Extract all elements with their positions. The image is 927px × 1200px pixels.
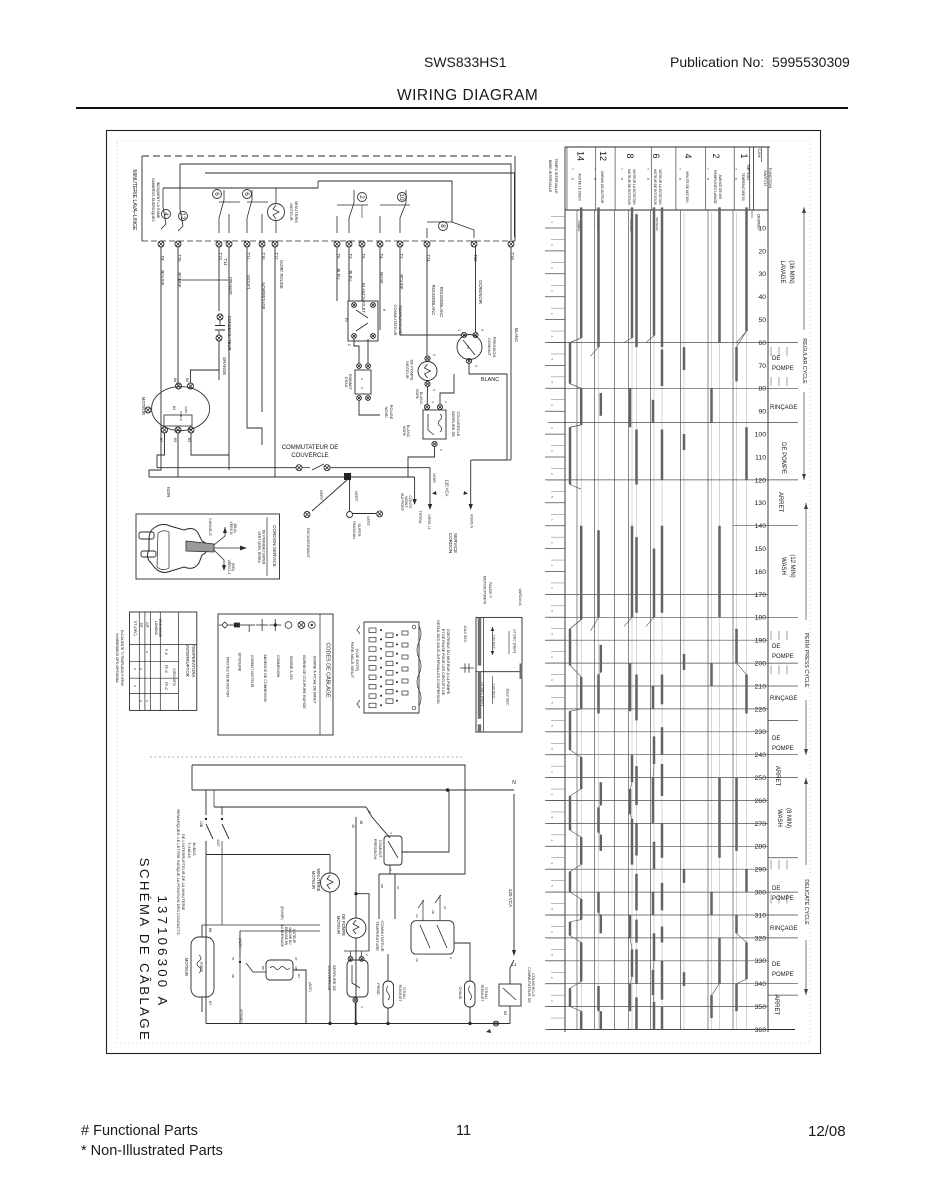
- timer internal wiring: [163, 188, 406, 209]
- svg-text:9T: 9T: [294, 957, 298, 961]
- timer cam switch 12: [178, 209, 188, 231]
- svg-text:1C: 1C: [415, 958, 419, 963]
- svg-text:(BLA): (BLA): [233, 523, 237, 532]
- svg-text:(VUE EXTR): (VUE EXTR): [355, 649, 360, 672]
- timer cam switch 10: [380, 193, 410, 234]
- cycle bracket PERM PRESS CYCLE: [803, 503, 809, 755]
- pressure switch bottom COMMUT PRESSION: [373, 832, 409, 871]
- svg-text:(NO): (NO): [231, 563, 235, 571]
- svg-text:x: x: [145, 651, 149, 653]
- svg-text:COMMUT: COMMUT: [487, 338, 492, 357]
- svg-text:MINUTE DE MOTION: MINUTE DE MOTION: [685, 171, 689, 203]
- svg-text:4: 4: [683, 153, 693, 158]
- svg-text:EPISSURE: EPISSURE: [238, 653, 242, 672]
- svg-text:290: 290: [755, 867, 767, 874]
- temperature switch COMMUTATEUR TEMPERATURE: [344, 301, 403, 347]
- svg-text:PROTECTEUR MOTOR: PROTECTEUR MOTOR: [226, 657, 230, 697]
- svg-text:CONTROLE DU MOTEUR À LA POMPE.: CONTROLE DU MOTEUR À LA POMPE.: [446, 629, 450, 695]
- svg-text:CAM: CAM: [757, 149, 762, 158]
- svg-text:CORDON SERVICE: CORDON SERVICE: [272, 525, 277, 567]
- svg-text:3: 3: [444, 401, 448, 403]
- svg-text:350: 350: [755, 1004, 767, 1011]
- svg-text:D=CALIENTE T=TEMPLADO F=FR: D=CALIENTE T=TEMPLADO F=FRIO: [120, 630, 124, 687]
- legend symbol protecteur motor: [219, 622, 231, 697]
- ground terminal on support: [353, 511, 383, 527]
- timer cam switch 6b: [243, 190, 269, 234]
- svg-text:8B: 8B: [231, 974, 235, 978]
- phase label WASH 12 MIN: [780, 554, 795, 577]
- svg-text:NOIR/: NOIR/: [279, 260, 284, 272]
- wire T24 to pump: [426, 247, 428, 356]
- svg-text:VERS N: VERS N: [229, 521, 233, 535]
- svg-text:SERVICE: SERVICE: [453, 533, 458, 553]
- svg-text:260: 260: [755, 798, 767, 805]
- svg-text:VERT: VERT: [319, 490, 324, 501]
- svg-text:C: C: [360, 387, 364, 390]
- legend box CODES DE CABLAGE: [218, 614, 333, 735]
- svg-text:T: T: [706, 168, 710, 170]
- svg-text:N: N: [512, 780, 516, 786]
- svg-text:POMPE: POMPE: [772, 746, 794, 752]
- svg-text:CONNEXION: CONNEXION: [276, 655, 280, 678]
- chart frame: [548, 147, 795, 1032]
- svg-text:H: H: [449, 957, 453, 959]
- svg-text:F1: F1: [344, 318, 348, 322]
- phase label DE POMPE 1: [772, 356, 794, 372]
- svg-text:RINÇAGE: RINÇAGE: [770, 696, 797, 702]
- timer terminal strip: [158, 241, 514, 247]
- svg-text:0T: 0T: [396, 886, 400, 890]
- wire T16 down: [247, 247, 262, 445]
- svg-text:D’EAU: D’EAU: [402, 987, 406, 999]
- svg-text:PARE MALE MINUT: PARE MALE MINUT: [350, 642, 355, 679]
- svg-text:MACHE DU: MACHE DU: [288, 927, 292, 945]
- svg-text:90: 90: [758, 409, 766, 416]
- svg-text:DE PANNEAU SUPER: DE PANNEAU SUPER: [262, 530, 266, 565]
- svg-text:MOTEUR LA ROTATION: MOTEUR LA ROTATION: [632, 169, 636, 205]
- svg-text:DE L’INTERRUPTEUR DE LA MINUTE: DE L’INTERRUPTEUR DE LA MINUTERIE: [181, 834, 186, 911]
- svg-text:250: 250: [755, 775, 767, 782]
- svg-text:T: T: [646, 168, 650, 170]
- svg-text:280: 280: [755, 844, 767, 851]
- phase label RINCAGE 3: [770, 926, 797, 932]
- svg-text:#12T: #12T: [216, 839, 220, 846]
- svg-text:6: 6: [243, 192, 250, 196]
- legend symbol borne a fiche: [308, 622, 316, 705]
- svg-text:3: 3: [550, 839, 554, 841]
- svg-text:VERT: VERT: [354, 491, 359, 502]
- svg-text:2: 2: [358, 195, 365, 199]
- chassis label ENCAISSEMANT: [306, 528, 310, 559]
- pressure switch label BLANC: [481, 377, 499, 383]
- svg-text:CHAUD: CHAUD: [458, 987, 462, 1000]
- cam 8 track bars: [630, 207, 637, 1029]
- svg-text:FF: FF: [415, 914, 419, 918]
- svg-text:DELICATE CYCLE: DELICATE CYCLE: [803, 879, 809, 925]
- svg-text:70: 70: [758, 363, 766, 370]
- temperature table notes: [115, 630, 124, 687]
- wire pressure feeds: [359, 790, 449, 874]
- svg-text:COUVERCLE: COUVERCLE: [291, 453, 328, 459]
- svg-text:330: 330: [755, 958, 767, 965]
- svg-text:H: H: [382, 309, 386, 312]
- svg-text:B: B: [571, 178, 575, 180]
- wire T13 to capacitor: [218, 247, 220, 311]
- wire pump to lock: [426, 387, 428, 405]
- svg-text:M4: M4: [172, 406, 176, 411]
- wire T19 down: [507, 247, 519, 460]
- svg-text:B: B: [593, 178, 597, 180]
- svg-text:M8: M8: [208, 928, 212, 933]
- svg-text:T=HAUS: T=HAUS: [187, 842, 192, 858]
- svg-text:MOTEUR: MOTEUR: [336, 916, 341, 934]
- pump motor MOTEUR DE POMPE: [405, 354, 437, 404]
- bus wire left drop: [179, 164, 181, 190]
- svg-text:GRIT: GRIT: [184, 406, 188, 413]
- svg-text:CONTE: CONTE: [408, 495, 412, 509]
- svg-text:6: 6: [651, 153, 661, 158]
- wire T4 down: [379, 247, 381, 330]
- svg-text:5: 5: [550, 633, 554, 635]
- wire 120 VCA: [508, 794, 517, 967]
- svg-text:8T: 8T: [231, 957, 235, 961]
- svg-text:FUNCTION: FUNCTION: [768, 168, 773, 189]
- svg-text:5: 5: [550, 496, 554, 498]
- svg-text:T: T: [734, 168, 738, 170]
- svg-text:INTERRUPTOR: INTERRUPTOR: [185, 645, 190, 677]
- temperature table INTERRUPTEUR TEMPERATURA: [130, 612, 197, 710]
- pressure switch COMMUT PRESSION: [457, 329, 497, 367]
- svg-text:(8 MIN): (8 MIN): [785, 808, 791, 828]
- svg-text:10: 10: [398, 193, 405, 201]
- svg-text:MINUTERIE LAVA–LINGE: MINUTERIE LAVA–LINGE: [131, 170, 137, 231]
- svg-text:6: 6: [550, 542, 554, 544]
- wire T5 down: [361, 247, 363, 301]
- svg-text:2: 2: [550, 427, 554, 429]
- svg-text:POMPE: POMPE: [772, 896, 794, 902]
- ground wire to chassis: [304, 480, 347, 518]
- wire lid switch line: [157, 467, 430, 469]
- svg-text:3: 3: [550, 290, 554, 292]
- svg-text:M5: M5: [261, 966, 265, 970]
- timer cam switch 4: [161, 207, 171, 229]
- phase label DE POMPE 4: [772, 736, 794, 752]
- svg-text:SCHÉMA DE CÂBLAGE: SCHÉMA DE CÂBLAGE: [137, 858, 152, 1042]
- chart time scale numbers: [755, 225, 767, 1034]
- svg-text:DE: DE: [772, 886, 780, 892]
- svg-text:MOTEUR: MOTEUR: [655, 218, 659, 232]
- svg-text:DETAIL DES SOUS–INTERVALLES D’: DETAIL DES SOUS–INTERVALLES D’ASPERSION: [436, 620, 440, 704]
- hot valve ROBINET CHAUD: [454, 943, 488, 1024]
- svg-text:PANNEAU: PANNEAU: [352, 521, 356, 539]
- svg-text:140: 140: [755, 523, 767, 530]
- svg-text:50: 50: [758, 317, 766, 324]
- svg-text:DE: DE: [772, 356, 780, 362]
- svg-text:T: T: [571, 168, 575, 170]
- svg-text:NOIR: NOIR: [166, 487, 171, 497]
- svg-text:RINÇAGE: RINÇAGE: [770, 926, 797, 932]
- svg-text:DE POMPE: DE POMPE: [341, 914, 346, 936]
- svg-text:8: 8: [550, 954, 554, 956]
- svg-text:COMMUTATEUR DE: COMMUTATEUR DE: [282, 445, 338, 451]
- cam 14 track bars: [570, 207, 581, 1029]
- timer note NUMEROS ENERGIQUES: [151, 178, 160, 222]
- svg-text:VERT: VERT: [366, 516, 370, 527]
- svg-text:10±4 SEC: 10±4 SEC: [463, 625, 467, 643]
- svg-text:DE: DE: [772, 644, 780, 650]
- svg-text:PERM PRESS CYCLE: PERM PRESS CYCLE: [803, 633, 809, 688]
- ground support labels: [400, 473, 474, 530]
- svg-text:110: 110: [755, 454, 766, 461]
- svg-text:T/T (OPC): T/T (OPC): [133, 620, 137, 636]
- cam 6 track bars: [653, 207, 662, 1029]
- svg-text:5: 5: [550, 702, 554, 704]
- chart header column separators: [567, 147, 734, 210]
- chart vertical rails: [577, 210, 752, 1030]
- svg-text:BLANC: BLANC: [514, 328, 519, 342]
- legend symbol borne coupure rapide: [298, 622, 306, 710]
- svg-text:x: x: [133, 685, 137, 687]
- svg-text:LA BORNIAGE: LA BORNIAGE: [280, 925, 284, 946]
- wire valve NOIR/ROUGE: [359, 401, 394, 420]
- svg-text:300: 300: [755, 890, 767, 897]
- svg-text:20: 20: [758, 248, 766, 255]
- svg-text:TEMPS INTERVALLE: TEMPS INTERVALLE: [554, 158, 558, 194]
- svg-text:12: 12: [179, 212, 186, 220]
- svg-text:120 VCA: 120 VCA: [508, 889, 513, 908]
- svg-text:M5: M5: [185, 378, 189, 383]
- svg-text:NOIR: NOIR: [432, 473, 436, 483]
- svg-text:C/F: C/F: [145, 622, 149, 627]
- diagram outer border: [107, 131, 821, 1054]
- svg-text:NBRE INTERVALLE: NBRE INTERVALLE: [548, 160, 552, 193]
- svg-text:ENCAISSEMANT: ENCAISSEMANT: [306, 528, 310, 559]
- svg-text:2B: 2B: [431, 910, 435, 914]
- timer motor bottom MOTEUR MINUTERIE: [206, 854, 340, 1023]
- svg-text:150: 150: [755, 546, 767, 553]
- phase label RINCAGE 2: [770, 696, 797, 702]
- phase label DE POMPE 2: [780, 442, 786, 474]
- svg-text:NUMEROS ENERGIQUES: NUMEROS ENERGIQUES: [151, 178, 155, 222]
- svg-text:ROBINET: ROBINET: [480, 985, 484, 1003]
- svg-text:FF–H: FF–H: [164, 665, 168, 674]
- svg-text:3: 3: [550, 1000, 554, 1002]
- svg-text:PRESSION: PRESSION: [492, 337, 497, 358]
- bottom bus wire N: [192, 780, 516, 792]
- svg-text:B: B: [678, 178, 682, 180]
- svg-text:CODES DE CÂBLAGE: CODES DE CÂBLAGE: [325, 642, 332, 698]
- svg-text:6: 6: [550, 450, 554, 452]
- lid lock SERRURE DE COUVERCLE: [402, 401, 461, 451]
- svg-text:2: 2: [365, 954, 369, 956]
- chart cam numbers: [571, 151, 750, 206]
- svg-text:ABSENCE DE CONNEXION: ABSENCE DE CONNEXION: [263, 654, 267, 701]
- svg-text:TEMPERATURA: TEMPERATURA: [191, 645, 196, 678]
- svg-text:1: 1: [739, 153, 749, 158]
- cam 4 track bars: [683, 347, 686, 986]
- phase label DE POMPE 3: [772, 644, 794, 660]
- svg-text:BORNE DE COUPURE RAPIDE: BORNE DE COUPURE RAPIDE: [302, 655, 306, 709]
- terminal labels: [160, 252, 515, 317]
- legend symbol connut moteur: [243, 625, 255, 688]
- svg-text:F–H: F–H: [164, 649, 168, 656]
- cam 1 track bars: [737, 207, 747, 1011]
- start relay LA BORNIAGE: [231, 906, 320, 1023]
- timer contact 12T: [206, 807, 229, 1024]
- bus wire top 4: [318, 181, 452, 222]
- svg-text:5: 5: [439, 449, 443, 451]
- svg-text:8: 8: [625, 153, 635, 158]
- chart track top labels: [577, 218, 659, 234]
- svg-text:4: 4: [162, 212, 169, 216]
- svg-text:6: 6: [550, 244, 554, 246]
- svg-text:M6: M6: [173, 378, 177, 383]
- svg-text:PRESSION: PRESSION: [373, 839, 378, 860]
- svg-text:NOIR/: NOIR/: [415, 389, 419, 400]
- timer contact 13B: [199, 790, 213, 839]
- svg-text:COMMUTATEUR: COMMUTATEUR: [393, 305, 398, 336]
- svg-text:B: B: [734, 178, 738, 180]
- svg-text:4: 4: [431, 401, 435, 403]
- svg-text:4T: 4T: [367, 810, 371, 814]
- svg-text:LAVAGE: LAVAGE: [779, 260, 785, 283]
- svg-text:WASH: WASH: [780, 557, 786, 575]
- svg-text:SUPER: SUPER: [357, 523, 361, 536]
- inner dotted margin: [117, 141, 810, 1043]
- svg-text:B: B: [620, 178, 624, 180]
- svg-text:180: 180: [755, 615, 767, 622]
- svg-text:5: 5: [550, 359, 554, 361]
- pump motor bottom MOTEUR DE POMPE: [336, 817, 366, 1024]
- svg-text:270: 270: [755, 821, 767, 828]
- svg-text:CIRCUITO: CIRCUITO: [172, 668, 176, 686]
- svg-text:5: 5: [550, 885, 554, 887]
- legend symbol borne a vis: [285, 622, 293, 681]
- svg-text:M1: M1: [187, 438, 191, 443]
- svg-text:M3: M3: [173, 438, 177, 443]
- svg-text:M3: M3: [503, 1011, 507, 1016]
- pause detail MOTOR/POMPE PAUSE: [460, 576, 522, 732]
- svg-text:120 VCA: 120 VCA: [445, 480, 450, 497]
- svg-text:340: 340: [755, 981, 767, 988]
- bus wire second: [214, 790, 366, 807]
- svg-text:M7: M7: [208, 1001, 212, 1006]
- phase label ARRET 3: [773, 995, 779, 1016]
- svg-text:T/F: T/F: [139, 622, 143, 627]
- svg-text:ET DE PAUSE POUR LES CIRCUITS: ET DE PAUSE POUR LES CIRCUITS DE: [441, 629, 445, 696]
- wire T3 down: [348, 247, 350, 301]
- page title WIRING DIAGRAM: [397, 87, 538, 105]
- svg-text:M7: M7: [159, 438, 163, 443]
- svg-text:MOTEUR: MOTEUR: [405, 361, 410, 378]
- legend symbol connexion: [269, 619, 281, 677]
- svg-text:(ESSOR): (ESSOR): [239, 1009, 243, 1022]
- chart header CAM SWITCH FUNCTION: [746, 147, 773, 230]
- phase label DE POMPE 5: [772, 886, 794, 902]
- temperature switch bottom COMMUTATEUR TEMPERATURE: [375, 895, 454, 963]
- svg-text:NIV: NIV: [466, 345, 470, 350]
- svg-text:3: 3: [389, 832, 393, 834]
- svg-text:13B: 13B: [199, 821, 203, 828]
- svg-text:14 SEC (REF): 14 SEC (REF): [513, 629, 517, 654]
- svg-text:SWITCH: SWITCH: [763, 170, 768, 186]
- svg-text:DE POMPE: DE POMPE: [780, 442, 786, 474]
- svg-text:(16 MIN): (16 MIN): [788, 260, 794, 283]
- wire temp switch to valve: [354, 339, 368, 363]
- svg-text:INDIQUENT LA GAME: INDIQUENT LA GAME: [156, 182, 160, 219]
- svg-text:160: 160: [755, 569, 767, 576]
- svg-text:120: 120: [755, 477, 767, 484]
- legend symbol epissure: [230, 623, 244, 672]
- capacitor CONDENSATEUR: [215, 314, 232, 380]
- svg-text:360: 360: [755, 1027, 767, 1034]
- svg-text:(12 MIN): (12 MIN): [789, 554, 795, 577]
- svg-text:ORANGE: ORANGE: [222, 357, 227, 375]
- wire pressure loop: [400, 335, 507, 460]
- svg-text:6B: 6B: [294, 966, 298, 970]
- svg-text:3: 3: [360, 1006, 364, 1008]
- svg-text:DE: DE: [772, 736, 780, 742]
- svg-text:170: 170: [755, 592, 767, 599]
- svg-text:30: 30: [758, 271, 766, 278]
- svg-text:6: 6: [213, 192, 220, 196]
- svg-text:BORNE À VIS: BORNE À VIS: [289, 656, 293, 680]
- svg-text:SUPPORT: SUPPORT: [400, 493, 404, 512]
- phase label RINCAGE 1: [770, 405, 797, 411]
- bottom left inner wires: [202, 841, 320, 1024]
- svg-text:B=BAS: B=BAS: [192, 842, 197, 855]
- title rule: [76, 107, 848, 109]
- svg-text:120 SEC: 120 SEC: [492, 683, 496, 698]
- wire T8 to motor: [149, 247, 161, 477]
- phase label WASH 8 MIN: [776, 808, 791, 828]
- svg-text:MINUTERIE: MINUTERIE: [294, 201, 299, 223]
- svg-text:DE MISE EN: DE MISE EN: [284, 927, 288, 946]
- svg-text:2: 2: [550, 931, 554, 933]
- svg-text:CANNELE: CANNELE: [208, 518, 212, 536]
- wire lock to pressure loop: [440, 374, 454, 404]
- svg-text:210: 210: [755, 683, 767, 690]
- wire motor to bus: [157, 370, 229, 477]
- header publication number: [670, 54, 850, 70]
- svg-text:8: 8: [550, 610, 554, 612]
- wire T25 down: [178, 247, 228, 385]
- svg-text:120 SEC: 120 SEC: [492, 634, 496, 649]
- wire inner rect to temp: [379, 874, 400, 919]
- motor MOTEUR: [141, 378, 210, 443]
- svg-text:T14: T14: [223, 258, 228, 266]
- chart horizontal grid lines: [548, 343, 768, 1030]
- svg-text:COUVERCLE: COUVERCLE: [456, 412, 461, 437]
- svg-text:3: 3: [550, 565, 554, 567]
- header model number: [424, 54, 506, 70]
- svg-text:BLANC: BLANC: [406, 425, 410, 438]
- timer plug connector PARE MALE MINUT: [350, 622, 421, 713]
- service cord wires right: [428, 460, 473, 553]
- svg-text:VERS N: VERS N: [470, 514, 474, 528]
- svg-text:DE POMPE: DE POMPE: [410, 359, 415, 380]
- ground wire to panel: [347, 480, 361, 539]
- svg-text:3: 3: [550, 588, 554, 590]
- svg-text:ENJUAGUE: ENJUAGUE: [158, 619, 162, 638]
- svg-text:OCRE/NOIR: OCRE/NOIR: [478, 280, 483, 304]
- svg-text:6: 6: [550, 862, 554, 864]
- timer cam switch 6a: [213, 190, 241, 234]
- dotted fold line: [150, 756, 463, 758]
- svg-text:310: 310: [755, 912, 767, 919]
- svg-text:D’EAU: D’EAU: [484, 987, 488, 999]
- svg-text:VERT VERS TERRA: VERT VERS TERRA: [257, 531, 261, 563]
